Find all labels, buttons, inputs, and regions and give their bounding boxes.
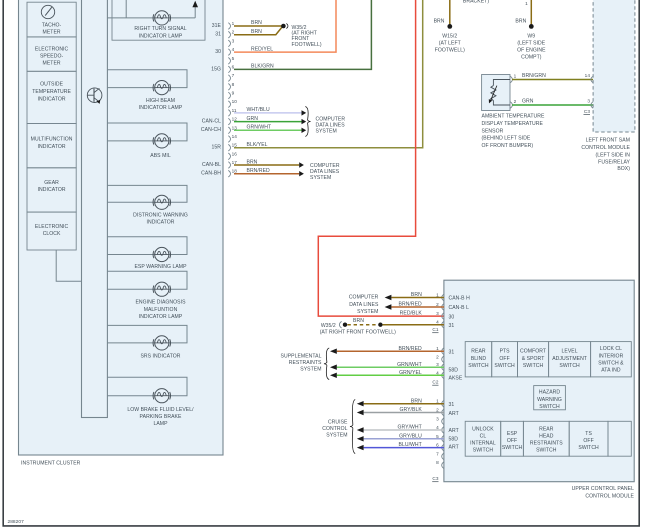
module C3 pin 5: [436, 434, 444, 442]
svg-text:INTERIOR: INTERIOR: [599, 354, 624, 360]
svg-text:GRN/WHT: GRN/WHT: [247, 125, 272, 131]
svg-text:C1: C1: [432, 327, 438, 332]
svg-text:ART: ART: [449, 428, 459, 434]
module C2 pin 3: [436, 362, 444, 370]
svg-text:INDICATOR LAMP: INDICATOR LAMP: [139, 105, 183, 111]
pin 2 of instrument cluster connector: [228, 30, 234, 38]
wire loop for SRS indicator: [107, 325, 187, 343]
svg-text:(LEFT SIDE IN: (LEFT SIDE IN: [595, 152, 630, 158]
module C3 pin 1: [436, 399, 444, 407]
SAM pin 3: [587, 99, 593, 109]
svg-text:CAN-CH: CAN-CH: [201, 127, 221, 133]
arrow pin 11: [302, 110, 307, 115]
splice node W35/2: [281, 23, 288, 28]
brace cruise control: [350, 400, 355, 454]
module C3 pin 8: [436, 460, 444, 468]
svg-text:SWITCH: SWITCH: [536, 447, 557, 453]
svg-text:(AT RIGHT FRONT FOOTWELL): (AT RIGHT FRONT FOOTWELL): [320, 329, 396, 335]
svg-text:GEAR: GEAR: [44, 180, 59, 186]
connector C1 label: [432, 327, 439, 333]
svg-text:C2: C2: [432, 380, 438, 385]
module C3 pin 4: [436, 425, 444, 433]
wire GRN sensor to SAM: [512, 104, 593, 106]
svg-text:SYSTEM: SYSTEM: [357, 309, 378, 315]
svg-text:FOOTWELL): FOOTWELL): [292, 42, 322, 48]
svg-text:CONTROL MODULE: CONTROL MODULE: [585, 493, 634, 499]
svg-text:BRN: BRN: [434, 18, 445, 24]
svg-text:CRUISE: CRUISE: [328, 419, 348, 425]
svg-text:31E: 31E: [212, 23, 222, 29]
sensor pin 2: [510, 99, 516, 109]
svg-text:58D: 58D: [449, 437, 459, 443]
svg-text:INSTRUMENT CLUSTER: INSTRUMENT CLUSTER: [21, 460, 81, 466]
svg-text:SWITCH: SWITCH: [494, 363, 515, 369]
svg-text:15G: 15G: [211, 66, 221, 72]
splice dot: [378, 323, 382, 327]
svg-text:LEVEL: LEVEL: [562, 348, 578, 354]
svg-text:REAR: REAR: [471, 348, 486, 354]
wire loop for high beam indicator lamp: [107, 70, 187, 88]
arrow BLU/WHT C3: [357, 445, 364, 450]
arrow C1 pin1: [385, 295, 392, 300]
svg-text:REAR: REAR: [539, 427, 554, 433]
svg-text:GRN/YEL: GRN/YEL: [399, 370, 422, 376]
module C3 pin 6: [436, 443, 444, 451]
svg-text:GRN: GRN: [247, 116, 259, 122]
svg-text:OUTSIDE: OUTSIDE: [40, 82, 64, 88]
svg-text:C3: C3: [432, 476, 438, 481]
wire GRN/WHT to module C2 pin3: [337, 366, 444, 368]
svg-text:GRY/BLU: GRY/BLU: [399, 433, 422, 439]
svg-text:14: 14: [232, 134, 238, 139]
TS off switch box: [569, 421, 608, 456]
svg-text:FOOTWELL): FOOTWELL): [435, 48, 465, 54]
module C1 pin 3: [436, 311, 444, 319]
svg-text:ABS MIL: ABS MIL: [150, 153, 171, 159]
svg-text:PTS: PTS: [500, 348, 511, 354]
arrow C2 pin1: [330, 349, 337, 354]
arrow C1 pin2: [385, 304, 392, 309]
arrow C2 pin3: [330, 365, 337, 370]
svg-text:GRN: GRN: [522, 99, 534, 105]
svg-text:RED/YEL: RED/YEL: [251, 46, 273, 52]
upper control panel control module box: [444, 280, 634, 482]
wire loop for ESP warning lamp: [107, 237, 187, 255]
svg-text:LEFT FRONT SAM: LEFT FRONT SAM: [586, 138, 630, 144]
wire BRN from pin 17: [234, 164, 299, 166]
spare switch position box: [608, 421, 631, 456]
SAM pin 14: [585, 73, 593, 83]
svg-text:14: 14: [585, 73, 591, 78]
svg-text:OF FRONT BUMPER): OF FRONT BUMPER): [482, 143, 534, 149]
svg-text:ART: ART: [449, 411, 459, 417]
svg-text:MALFUNTION: MALFUNTION: [144, 307, 178, 313]
svg-text:SWITCH: SWITCH: [523, 363, 544, 369]
svg-text:TS: TS: [585, 431, 592, 437]
wire BLK/YEL from pin 15 up to top: [234, 0, 423, 148]
lamp symbol: engine diagnosis malfunction indicator lamp: [153, 282, 170, 296]
electronic speedometer box: [27, 37, 76, 71]
svg-text:CL: CL: [480, 433, 487, 439]
svg-text:SENSOR: SENSOR: [482, 128, 504, 134]
svg-text:ELECTRONIC: ELECTRONIC: [35, 224, 69, 230]
svg-text:RESTRAINTS: RESTRAINTS: [530, 441, 563, 447]
pin 7 of instrument cluster connector: [228, 73, 234, 81]
lamp symbol: distronic warning indicator: [153, 195, 170, 209]
wire RED/BLK from top to upper control panel module pin 3: [318, 0, 444, 316]
lamp symbol: high beam indicator lamp: [153, 81, 170, 95]
svg-text:INTERNAL: INTERNAL: [470, 441, 496, 447]
svg-text:BRN: BRN: [411, 292, 422, 298]
module C2 pin 1: [436, 346, 444, 354]
wire: right turn loop right leg: [194, 3, 196, 18]
SAM connector C3 label: [584, 109, 591, 115]
svg-text:16: 16: [232, 151, 238, 156]
arrow GRY/BLU C3: [357, 436, 364, 441]
svg-text:BRN: BRN: [247, 159, 258, 165]
svg-text:DISPLAY TEMPERATURE: DISPLAY TEMPERATURE: [482, 121, 544, 127]
connector C3 label (module): [432, 476, 439, 482]
svg-text:1: 1: [514, 73, 517, 78]
module C1 pin 4: [436, 320, 444, 328]
svg-text:INDICATOR LAMP: INDICATOR LAMP: [139, 33, 183, 39]
sensor pin 1: [510, 73, 516, 83]
arrow GRY/BLK C3: [357, 410, 364, 415]
lamp symbol: ESP warning lamp: [153, 247, 170, 261]
lamp driver bus bar: [82, 0, 108, 418]
pin 15 of instrument cluster connector: [228, 143, 237, 151]
wire: right turn loop left leg: [125, 0, 127, 18]
wire RED/YEL from pin 4 up to top: [234, 0, 336, 52]
wire GRN from pin 12: [234, 121, 302, 123]
svg-text:BLIND: BLIND: [471, 356, 487, 362]
wire GRN/YEL to module C2 pin4: [337, 374, 444, 376]
svg-text:ESP: ESP: [507, 431, 518, 437]
thermistor R (sensor element): [491, 86, 496, 101]
svg-text:BRACKET): BRACKET): [463, 0, 489, 5]
wire BRN from pin 2: [234, 26, 283, 34]
svg-text:288207: 288207: [8, 519, 25, 525]
svg-text:BRN/GRN: BRN/GRN: [522, 73, 546, 79]
svg-text:BRN: BRN: [251, 29, 262, 35]
svg-text:GRN/WHT: GRN/WHT: [397, 362, 422, 368]
wire BRN solid segment to C1 pin4: [383, 324, 444, 326]
svg-text:INDICATOR: INDICATOR: [147, 220, 175, 226]
svg-text:BLK/YEL: BLK/YEL: [247, 142, 268, 148]
lock CL interior switch & ATA ind box: [591, 342, 632, 377]
svg-text:31: 31: [215, 32, 221, 38]
arrow pin 17: [299, 162, 304, 167]
svg-text:(LEFT SIDE: (LEFT SIDE: [517, 40, 545, 46]
svg-text:CAN-BL: CAN-BL: [202, 162, 221, 168]
wire from electronic clock to driver bus: [56, 250, 81, 281]
level adjustment switch box: [549, 342, 591, 377]
sensor internal wiring: [493, 80, 510, 106]
svg-text:HIGH BEAM: HIGH BEAM: [146, 98, 175, 104]
svg-text:5: 5: [232, 56, 235, 61]
module C3 pin 2: [436, 408, 444, 416]
svg-text:CLOCK: CLOCK: [43, 231, 61, 237]
wire BLU/WHT to module C3: [364, 447, 444, 449]
svg-text:& SPORT: & SPORT: [522, 356, 545, 362]
svg-text:CAN-BH: CAN-BH: [201, 171, 221, 177]
wire loop for ABS MIL: [107, 123, 187, 141]
svg-text:TACHO-: TACHO-: [42, 23, 62, 29]
wire loop for low brake fluid level / parking brake lamp: [107, 377, 187, 395]
svg-text:CAN-B H: CAN-B H: [449, 296, 471, 302]
arrow pin 12: [302, 119, 307, 124]
svg-text:8: 8: [436, 460, 439, 465]
rear blind switch box: [465, 342, 492, 377]
svg-text:WHT/BLU: WHT/BLU: [247, 107, 271, 113]
svg-text:W35/2: W35/2: [321, 323, 336, 329]
module C1 pin 2: [436, 302, 444, 310]
wire BLK/GRN from pin 6 up to top: [234, 0, 371, 69]
svg-text:ELECTRONIC: ELECTRONIC: [35, 46, 69, 52]
svg-text:RED/BLK: RED/BLK: [400, 311, 423, 317]
ambient temperature display temperature sensor box: [482, 75, 510, 111]
wire GRN/WHT from pin 13: [234, 129, 302, 131]
svg-text:1: 1: [525, 1, 528, 6]
svg-text:3: 3: [436, 416, 439, 421]
svg-text:31: 31: [449, 349, 455, 355]
svg-text:SWITCH: SWITCH: [502, 445, 523, 451]
pin 5 of instrument cluster connector: [228, 56, 234, 64]
gear indicator box: [27, 168, 76, 212]
svg-text:SYSTEM: SYSTEM: [300, 367, 321, 373]
pin 3 of instrument cluster connector: [228, 38, 234, 46]
svg-text:8: 8: [232, 82, 235, 87]
svg-text:SPEEDO-: SPEEDO-: [40, 53, 64, 59]
rear head restraints switch box: [523, 421, 569, 456]
PTS off switch box: [492, 342, 518, 377]
svg-text:58D: 58D: [449, 367, 459, 373]
pin 17 of instrument cluster connector: [228, 160, 237, 168]
svg-text:CAN-CL: CAN-CL: [202, 119, 221, 125]
svg-text:SYSTEM: SYSTEM: [326, 432, 347, 438]
wire BRN to ground W15/2: [449, 0, 451, 24]
svg-text:SWITCH: SWITCH: [578, 445, 599, 451]
tachometer gauge icon: [41, 5, 54, 18]
wire WHT/BLU from pin 11: [234, 112, 302, 114]
pin 9 of instrument cluster connector: [228, 91, 234, 99]
svg-text:BLK/GRN: BLK/GRN: [251, 64, 274, 70]
svg-text:HAZARD: HAZARD: [539, 390, 561, 396]
instrument cluster box: [19, 0, 224, 455]
comfort & sport switch box: [518, 342, 549, 377]
svg-text:INDICATOR: INDICATOR: [38, 144, 66, 150]
svg-text:GRY/WHT: GRY/WHT: [397, 425, 421, 431]
svg-text:ESP WARNING LAMP: ESP WARNING LAMP: [134, 264, 187, 270]
arrow pin 13: [302, 128, 307, 133]
svg-text:INDICATOR: INDICATOR: [38, 187, 66, 193]
lamp symbol: ABS MIL: [153, 134, 170, 148]
svg-text:3: 3: [587, 99, 590, 104]
module C3 pin 7: [436, 451, 444, 459]
svg-text:DATA LINES: DATA LINES: [349, 302, 379, 308]
svg-text:WARNING: WARNING: [537, 397, 562, 403]
svg-text:PARKING BRAKE: PARKING BRAKE: [140, 414, 182, 420]
pin 14 of instrument cluster connector: [228, 134, 237, 142]
ground W9: [529, 24, 534, 29]
svg-text:MULTIFUNCTION: MULTIFUNCTION: [31, 137, 73, 143]
svg-text:AKSE: AKSE: [449, 375, 463, 381]
arrow GRY/WHT C3: [357, 427, 364, 432]
svg-text:9: 9: [232, 91, 235, 96]
svg-text:BRN: BRN: [515, 18, 526, 24]
wire GRY/WHT to module C3: [364, 429, 444, 431]
svg-text:OFF: OFF: [507, 438, 517, 444]
junction arrow at top of right turn loop: [192, 1, 198, 7]
pin 6 of instrument cluster connector: [228, 64, 234, 72]
svg-text:7: 7: [232, 73, 235, 78]
svg-text:DISTRONIC WARNING: DISTRONIC WARNING: [133, 212, 188, 218]
lamp symbol: low brake fluid level / parking brake lamp: [153, 389, 170, 403]
lamp symbol: right turn signal indicator lamp: [153, 11, 170, 25]
brace for computer data lines: [305, 107, 310, 137]
transistor Q1 (lamp driver): [87, 88, 102, 104]
svg-text:15R: 15R: [212, 145, 222, 151]
svg-text:METER: METER: [43, 29, 61, 35]
svg-text:BRN: BRN: [353, 318, 364, 324]
svg-text:SWITCH &: SWITCH &: [598, 361, 624, 367]
svg-text:SWITCH: SWITCH: [559, 363, 580, 369]
svg-text:30: 30: [215, 49, 221, 55]
wire BRN dashed segment: [347, 324, 378, 326]
wire BRN/GRN sensor to SAM: [512, 79, 593, 81]
right turn signal indicator lamp box: [112, 0, 205, 40]
pin 18 of instrument cluster connector: [228, 169, 237, 177]
svg-text:COMPT): COMPT): [521, 55, 542, 61]
svg-text:7: 7: [436, 451, 439, 456]
svg-text:SWITCH: SWITCH: [539, 404, 560, 410]
svg-text:3: 3: [232, 38, 235, 43]
wire BRN/RED from pin 18: [234, 173, 299, 175]
svg-text:OFF: OFF: [499, 356, 509, 362]
svg-text:SWITCH: SWITCH: [473, 447, 494, 453]
svg-text:W9: W9: [527, 33, 535, 39]
svg-text:ADJUSTMENT: ADJUSTMENT: [552, 356, 587, 362]
svg-text:HEAD: HEAD: [539, 433, 554, 439]
module C2 pin 2: [436, 354, 444, 362]
svg-text:SYSTEM: SYSTEM: [310, 175, 331, 181]
svg-text:C3: C3: [584, 109, 590, 114]
lamp symbol: SRS indicator: [153, 336, 170, 350]
ESP off switch box: [501, 421, 524, 456]
svg-text:BRN: BRN: [251, 20, 262, 26]
svg-text:COMPUTER: COMPUTER: [349, 295, 379, 301]
hazard warning switch box: [534, 386, 566, 410]
svg-text:2: 2: [514, 99, 517, 104]
svg-text:(BEHIND LEFT SIDE: (BEHIND LEFT SIDE: [482, 136, 531, 142]
wire BRN to ground W9: [530, 0, 532, 24]
unlock CL internal switch box: [465, 421, 501, 456]
module C2 pin 4: [436, 370, 444, 378]
multifunction indicator box: [27, 124, 76, 168]
svg-text:CONTROL MODULE: CONTROL MODULE: [581, 145, 630, 151]
svg-text:OF ENGINE: OF ENGINE: [517, 48, 546, 54]
svg-text:ATA IND: ATA IND: [601, 368, 621, 374]
svg-text:BRN: BRN: [411, 398, 422, 404]
arrow C2 pin4: [330, 373, 337, 378]
arrow BRN C3: [357, 401, 364, 406]
module C1 pin 1: [436, 293, 444, 301]
outside temperature indicator box: [27, 71, 76, 123]
svg-text:(AT LEFT: (AT LEFT: [439, 40, 461, 46]
wire BRN from pin 1: [234, 25, 282, 27]
svg-text:BRN/RED: BRN/RED: [399, 302, 423, 308]
svg-text:RIGHT TURN SIGNAL: RIGHT TURN SIGNAL: [134, 26, 186, 32]
pin 8 of instrument cluster connector: [228, 82, 234, 90]
svg-text:SUPPLEMENTAL: SUPPLEMENTAL: [281, 354, 322, 360]
svg-text:SWITCH: SWITCH: [468, 363, 489, 369]
pin 4 of instrument cluster connector: [228, 47, 234, 55]
wire BRN to module C3: [364, 403, 444, 405]
electronic clock box: [27, 212, 76, 250]
pin 12 of instrument cluster connector: [228, 117, 237, 125]
pin 10 of instrument cluster connector: [228, 99, 237, 107]
svg-text:BRN/RED: BRN/RED: [247, 168, 271, 174]
svg-text:W15/2: W15/2: [442, 33, 457, 39]
wire BRN to module C1 pin1: [391, 297, 444, 299]
svg-text:UNLOCK: UNLOCK: [472, 427, 494, 433]
left front SAM control module box (dashed): [593, 0, 635, 132]
svg-text:2: 2: [436, 354, 439, 359]
svg-text:OFF: OFF: [583, 438, 593, 444]
svg-text:ENGINE DIAGNOSIS: ENGINE DIAGNOSIS: [135, 300, 186, 306]
pin 16 of instrument cluster connector: [228, 151, 237, 159]
svg-text:SRS INDICATOR: SRS INDICATOR: [140, 353, 180, 359]
svg-text:ART: ART: [449, 444, 459, 450]
brace supplemental restraints: [324, 348, 329, 380]
svg-text:RESTRAINTS: RESTRAINTS: [289, 360, 322, 366]
svg-text:CONTROL: CONTROL: [322, 426, 347, 432]
wire: right turn lamp circuit: [107, 17, 195, 19]
wire BRN/RED to module C2 pin1: [337, 350, 444, 352]
svg-text:LOW BRAKE FLUID LEVEL/: LOW BRAKE FLUID LEVEL/: [127, 407, 194, 413]
svg-text:31: 31: [449, 402, 455, 408]
tachometer box: [27, 2, 76, 37]
wire GRY/BLU to module C3: [364, 438, 444, 440]
connector C2 label: [432, 380, 439, 386]
ground W15/2: [447, 24, 452, 29]
wire loop for distronic warning indicator: [107, 185, 187, 202]
thermistor arrow: [489, 86, 497, 104]
svg-text:INDICATOR LAMP: INDICATOR LAMP: [139, 314, 183, 320]
svg-text:GRY/BLK: GRY/BLK: [399, 407, 422, 413]
svg-text:UPPER CONTROL PANEL: UPPER CONTROL PANEL: [572, 486, 634, 492]
svg-text:TEMPERATURE: TEMPERATURE: [32, 89, 71, 95]
svg-text:BLU/WHT: BLU/WHT: [399, 442, 422, 448]
wire GRY/BLK to module C3: [364, 412, 444, 414]
splice symbol and dashed BRN wire to C1 pin4: [339, 321, 347, 328]
svg-text:BOX): BOX): [617, 166, 630, 172]
svg-text:COMFORT: COMFORT: [520, 348, 546, 354]
svg-text:AMBIENT TEMPERATURE: AMBIENT TEMPERATURE: [482, 114, 545, 120]
svg-text:10: 10: [232, 99, 238, 104]
wire BRN/RED to module C1 pin2: [391, 306, 444, 308]
wire loop for engine diagnosis malfunction indicator lamp: [107, 271, 187, 289]
svg-text:30: 30: [449, 314, 455, 320]
svg-text:31: 31: [449, 323, 455, 329]
svg-text:SYSTEM: SYSTEM: [316, 129, 337, 135]
pin 1 of instrument cluster connector: [228, 21, 234, 29]
svg-text:INDICATOR: INDICATOR: [38, 96, 66, 102]
svg-text:3: 3: [436, 311, 439, 316]
pin 11 of instrument cluster connector: [228, 108, 237, 116]
svg-text:METER: METER: [43, 60, 61, 66]
svg-text:LOCK CL: LOCK CL: [600, 346, 622, 352]
